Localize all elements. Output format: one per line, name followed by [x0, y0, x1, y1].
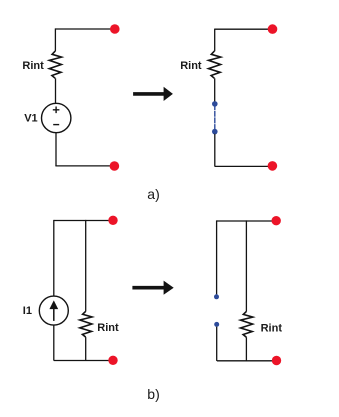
wire bottom b-right horizontal — [217, 360, 276, 362]
wire bottom a-left horizontal — [55, 165, 114, 167]
terminal red dot a-right bottom — [268, 161, 278, 171]
open node blue dot b-right upper — [214, 294, 219, 299]
terminal red dot b-right top — [272, 216, 281, 225]
voltage source V1 circle — [42, 103, 71, 132]
wire b-right middle branch below resistor — [245, 337, 247, 361]
resistor Rint (b-left) — [80, 311, 92, 337]
wire a-left between resistor and source — [55, 78, 57, 103]
arrow b (transform arrow) — [132, 281, 173, 295]
wire b-right left branch lower — [216, 327, 218, 361]
wire bottom a-right horizontal — [215, 165, 273, 167]
open node blue dot b-right lower — [214, 322, 219, 327]
terminal red dot b-left bottom — [108, 356, 117, 365]
V1 minus sign — [53, 124, 59, 126]
I1 arrow up — [53, 308, 55, 321]
svg-text:b): b) — [147, 386, 159, 402]
wire b-right left branch upper — [216, 220, 218, 294]
wire top a-left horizontal — [55, 28, 114, 30]
resistor Rint (a-right) — [209, 51, 221, 78]
node blue dot a-right upper — [212, 101, 218, 107]
node blue dot a-right lower — [212, 129, 218, 135]
wire b-left middle branch below resistor — [85, 337, 87, 361]
terminal red dot b-right bottom — [272, 356, 281, 365]
wire a-left below source — [55, 133, 57, 166]
wire b-left left branch above source — [53, 220, 55, 296]
current source I1 circle — [39, 296, 68, 325]
svg-text:I1: I1 — [23, 305, 32, 317]
svg-text:Rint: Rint — [261, 322, 283, 334]
wire b-right middle branch above resistor — [245, 220, 247, 311]
terminal red dot a-left bottom — [110, 161, 120, 171]
wire a-left vertical above resistor — [54, 28, 56, 51]
svg-text:Rint: Rint — [97, 322, 119, 334]
svg-text:a): a) — [147, 186, 159, 202]
wire top b-right horizontal — [217, 220, 276, 222]
wire b-left below source — [53, 325, 55, 361]
wire bottom b-left horizontal — [54, 360, 113, 362]
svg-text:V1: V1 — [24, 112, 37, 124]
wire a-right vertical above resistor — [214, 29, 216, 52]
terminal red dot a-left top — [110, 24, 120, 34]
wire b-left middle branch above resistor — [85, 220, 87, 312]
svg-text:Rint: Rint — [22, 60, 44, 72]
V1 plus sign — [53, 107, 60, 114]
terminal red dot b-left top — [108, 216, 117, 225]
resistor Rint (a-left) — [49, 51, 61, 78]
arrow a (transform arrow) — [133, 87, 173, 101]
svg-text:Rint: Rint — [180, 60, 202, 72]
wire a-right below resistor — [214, 78, 216, 101]
resistor Rint (b-right) — [241, 311, 253, 337]
wire top b-left horizontal — [54, 220, 113, 222]
short-circuit blue wire — [214, 104, 216, 132]
wire top a-right horizontal — [215, 28, 273, 30]
terminal red dot a-right top — [268, 24, 278, 34]
wire a-right below short — [214, 134, 216, 167]
